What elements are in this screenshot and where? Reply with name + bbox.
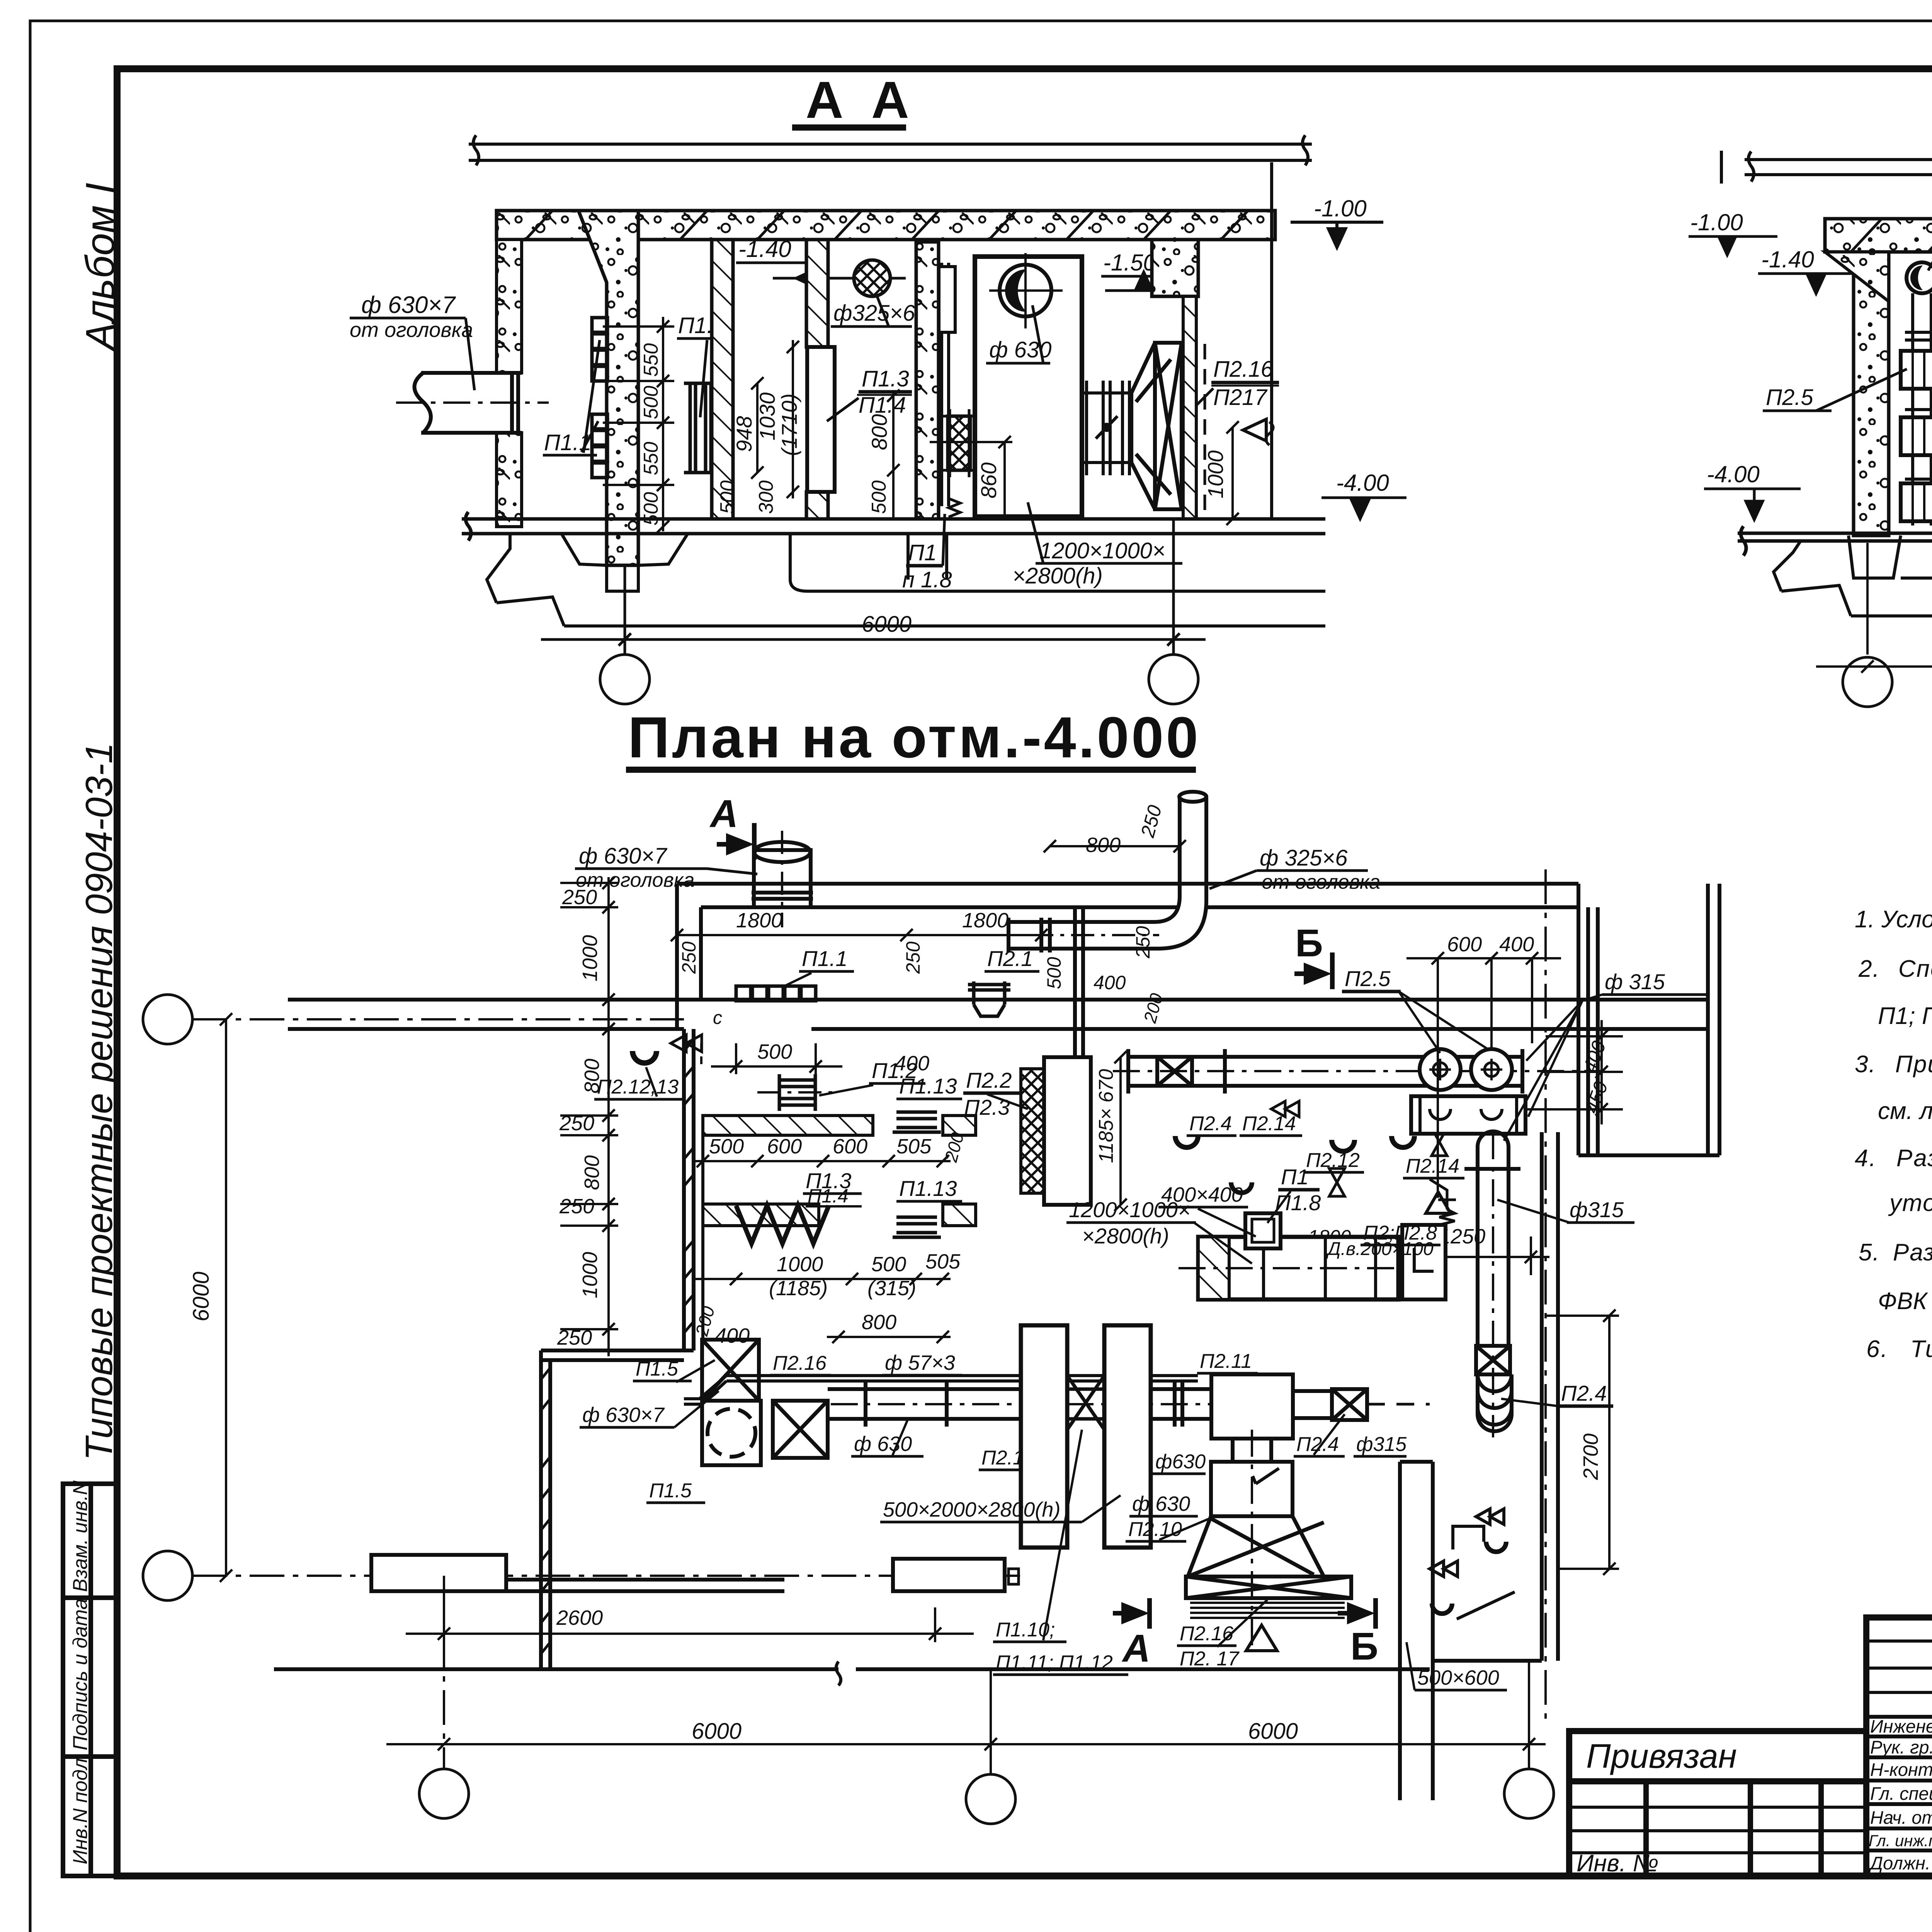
svg-text:ф315: ф315 [1570,1197,1624,1222]
svg-text:250: 250 [1132,926,1154,959]
svg-text:500: 500 [1043,957,1065,989]
svg-text:5. Размеры в скобках относ: 5. Размеры в скобках относятся только к [1859,1239,1932,1266]
svg-text:1000: 1000 [1203,450,1228,498]
hatched partition walls [703,1116,873,1135]
foundation profile [487,534,1325,626]
П1 center unit [1198,1237,1398,1299]
svg-text:×2800(h): ×2800(h) [1082,1224,1169,1248]
svg-text:1800: 1800 [962,909,1009,932]
svg-text:6000: 6000 [189,1272,214,1321]
hatch column 2 with filter П1.3/П1.4 [806,240,828,347]
svg-text:П2.4: П2.4 [1296,1433,1339,1456]
svg-text:А: А [709,792,738,835]
svg-text:Должн.: Должн. [1868,1853,1930,1873]
svg-text:П2.16: П2.16 [1180,1622,1233,1645]
dim chain 550/500/550/500 [603,317,674,533]
П2.1 stub [968,981,1010,1016]
svg-text:П1: П1 [1281,1165,1309,1189]
svg-text:П2.16: П2.16 [773,1352,827,1374]
f325x6 grilled circle [854,260,890,296]
П1.1 louvre stacks [592,318,607,478]
svg-text:с: с [713,1008,722,1028]
fan cone + X box [1131,343,1182,509]
svg-text:6000: 6000 [862,612,912,637]
П2.2/П2.3 unit [1021,1069,1044,1193]
foundation profile [1774,541,1932,616]
svg-text:300: 300 [755,480,777,514]
svg-text:П2.3: П2.3 [964,1095,1010,1119]
svg-text:-4.00: -4.00 [1707,461,1760,487]
hooks and valves under duct [1173,1136,1417,1195]
svg-text:-1.00: -1.00 [1690,209,1743,235]
svg-text:400: 400 [1499,933,1534,956]
svg-text:-1.00: -1.00 [1314,196,1367,221]
948 dim [751,377,764,479]
П1.13 units [893,1112,941,1237]
svg-text:600: 600 [1447,933,1482,956]
grid bubbles [1843,657,1892,707]
svg-text:А: А [806,71,844,129]
svg-text:Инв.N подл.: Инв.N подл. [69,1753,92,1864]
svg-text:П2.14: П2.14 [1406,1155,1459,1177]
svg-text:948: 948 [732,416,756,452]
svg-text:500: 500 [757,1040,792,1063]
svg-text:Гл. инж.пр.: Гл. инж.пр. [1869,1832,1932,1850]
svg-text:2600: 2600 [556,1606,603,1629]
П1.1 grille row on corridor wall [736,986,816,1001]
svg-text:600: 600 [767,1135,802,1158]
svg-text:П1.5: П1.5 [636,1358,679,1380]
top slab lines [1721,151,1932,184]
upper room walls [677,884,1719,1155]
svg-text:(1710): (1710) [777,393,801,456]
svg-text:ф630: ф630 [1155,1451,1206,1473]
floor lines [462,512,1325,541]
left exterior wall (concrete) [497,240,522,373]
svg-text:500: 500 [871,1253,906,1276]
svg-text:Рук. гр.: Рук. гр. [1870,1737,1932,1757]
П2.10 cone下 [1186,1439,1351,1598]
1030 (1710) dim [787,340,799,498]
svg-text:от оголовка: от оголовка [350,318,473,342]
svg-text:П1.3: П1.3 [862,366,909,391]
svg-text:П2.11: П2.11 [1200,1350,1252,1372]
svg-text:1800: 1800 [736,909,782,932]
svg-text:800: 800 [867,414,891,450]
svg-text:400: 400 [1094,972,1126,993]
riser pipes below circles [1905,293,1932,526]
f315 circles top [1906,262,1932,293]
chimney f630 [752,842,813,907]
svg-text:П1: П1 [908,540,937,565]
svg-text:550: 550 [640,442,662,475]
grid bubbles + 6000 dim [541,519,1206,704]
floor [1738,526,1932,556]
svg-text:860: 860 [976,463,1001,498]
svg-text:500: 500 [640,386,662,419]
svg-text:Гл. спец.: Гл. спец. [1870,1783,1932,1804]
svg-text:Нач. отд.: Нач. отд. [1870,1807,1932,1828]
svg-text:П2.10: П2.10 [1128,1518,1182,1541]
svg-text:6000: 6000 [692,1719,742,1744]
left room wall with jog [541,1029,694,1669]
duct to П2.11 junction [1151,1374,1367,1439]
svg-text:1000: 1000 [578,935,602,981]
svg-text:П1.4: П1.4 [808,1185,849,1207]
svg-text:6000: 6000 [1248,1719,1298,1744]
svg-text:А: А [1121,1627,1150,1670]
SECTION A-A [350,71,1406,704]
svg-text:П2. 17: П2. 17 [1180,1648,1240,1670]
svg-text:1200×1000×: 1200×1000× [1069,1197,1190,1222]
WW coil П1.3/П1.4 [736,1206,829,1243]
svg-text:250: 250 [559,1195,594,1218]
svg-text:505: 505 [925,1250,961,1273]
svg-text:500: 500 [709,1135,744,1158]
svg-text:П217: П217 [1213,385,1268,410]
svg-text:Н-контр.: Н-контр. [1870,1759,1932,1780]
long f630 duct [828,1381,1021,1427]
SECTION B-B [1689,69,1932,707]
svg-text:П2.1: П2.1 [987,946,1033,971]
svg-text:2700: 2700 [1579,1434,1602,1480]
svg-text:250: 250 [902,941,924,974]
left-bottom side table [63,1484,117,1876]
svg-text:П2.16: П2.16 [1213,357,1274,382]
svg-text:ф315: ф315 [1356,1433,1407,1456]
corridor wall band [288,1000,1708,1029]
middle concrete wall [916,242,939,519]
svg-text:П1; П2 см. лист ОВ-7.: П1; П2 см. лист ОВ-7. [1878,1003,1932,1029]
NOTES [1855,825,1932,1362]
svg-text:ф 57×3: ф 57×3 [885,1351,955,1374]
svg-text:1185× 670: 1185× 670 [1095,1069,1117,1163]
svg-text:П1.13: П1.13 [899,1176,957,1201]
duct from П1 unit to left: f57x3 line [684,1369,1198,1404]
left (Привязан) table [1569,1731,1866,1876]
svg-text:ФВК: ФВК [1878,1288,1929,1315]
svg-text:П2.12,13: П2.12,13 [597,1076,679,1098]
svg-text:Б: Б [1295,922,1323,965]
П2.5 fans [1420,1049,1461,1090]
hatch column 1 [712,240,733,519]
800 / 500 dims [887,389,900,519]
svg-text:ф 630: ф 630 [854,1432,912,1456]
П1.10-12 fan unit tall rects [1021,1325,1151,1548]
big unit 1200x1000 [975,257,1082,517]
svg-text:250: 250 [562,886,597,909]
svg-text:800: 800 [580,1155,604,1190]
svg-text:ф 630×7: ф 630×7 [582,1403,665,1427]
inner column with chamfer [578,211,638,565]
svg-text:3. Принципиальную схему раб: 3. Принципиальную схему работы вентиляци… [1855,1051,1932,1078]
svg-text:500×2000×2800(h): 500×2000×2800(h) [883,1498,1060,1521]
svg-text:550: 550 [640,343,662,377]
svg-text:уточняется при привязке про: уточняется при привязке проекта. [1888,1190,1932,1216]
svg-text:1000: 1000 [777,1253,823,1276]
svg-text:4. Размер воздуховода в ос: 4. Размер воздуховода в основное помещен… [1855,1145,1932,1172]
svg-text:1030: 1030 [755,392,779,440]
svg-text:Подпись и дата: Подпись и дата [69,1599,92,1750]
ceiling concrete band [497,211,1275,240]
svg-text:ф 315: ф 315 [1605,969,1665,994]
svg-text:А: А [871,71,909,129]
svg-text:Типовые проектные решения 0: Типовые проектные решения 0904-03-1 [78,743,120,1461]
svg-text:-4.00: -4.00 [1336,470,1389,496]
intake pipe f630x7 [415,373,522,433]
PLAN [143,705,1719,1669]
right wall bottom part + 500x600 duct down [1400,907,1719,1800]
svg-text:Б: Б [1350,1625,1378,1668]
svg-text:П1.13: П1.13 [899,1074,957,1098]
svg-text:800: 800 [862,1311,896,1334]
spring under wall [949,498,960,517]
upper slab double lines [469,135,1312,165]
valve assembly right bottom [1430,1509,1515,1619]
svg-text:П2.2: П2.2 [966,1068,1012,1092]
svg-text:Инженер: Инженер [1870,1716,1932,1736]
f325x6 pipe Г-shape [1009,792,1206,952]
svg-text:ф 325×6: ф 325×6 [1260,845,1348,871]
vertical f315 duct w/ cap, damper and bend [1464,1131,1520,1431]
svg-text:-1.50: -1.50 [1103,250,1156,276]
П2.5 boxes [1901,351,1932,521]
svg-text:6. Тип калориферов определя: 6. Тип калориферов определяется при прое… [1866,1336,1932,1362]
svg-text:×2800(h): ×2800(h) [1012,563,1103,588]
f630 crescent circle [1000,265,1051,316]
grid circles left + 6000 vert dim [143,995,192,1044]
svg-text:Привязан: Привязан [1586,1737,1737,1775]
svg-text:2. Спецификацию вентиляционн: 2. Спецификацию вентиляционного оборудов… [1858,956,1932,982]
svg-text:П1.4: П1.4 [859,393,906,418]
П1.2 unit [779,1074,815,1111]
svg-text:ф325×6: ф325×6 [833,301,915,326]
svg-text:600: 600 [833,1135,867,1158]
svg-text:400: 400 [715,1324,750,1347]
svg-text:ф 630×7: ф 630×7 [361,292,456,318]
svg-text:П2.4: П2.4 [1189,1112,1232,1135]
middle signature table [1866,1617,1932,1876]
TITLE BLOCK [1569,1617,1932,1915]
svg-text:П1.5: П1.5 [649,1480,692,1502]
svg-text:Альбом I: Альбом I [78,183,123,352]
svg-text:П1.1: П1.1 [802,946,847,971]
svg-text:Взам. инв.N: Взам. инв.N [69,1480,92,1592]
П1.5 crossed duct boxes [702,1340,828,1465]
svg-text:505: 505 [896,1135,932,1158]
svg-text:п 1.8: п 1.8 [902,567,952,592]
svg-text:П2.5: П2.5 [1766,385,1813,410]
svg-text:П2.14: П2.14 [1242,1112,1296,1135]
svg-text:250: 250 [678,941,700,974]
svg-text:П2.12: П2.12 [1306,1149,1360,1172]
ceiling concrete band [1825,219,1932,252]
svg-text:500: 500 [716,480,739,514]
bottom walls [274,1555,1430,1685]
thin duct in wall + filter stack [939,263,955,506]
svg-text:Д.в.200×100: Д.в.200×100 [1326,1239,1434,1259]
svg-text:ф 630×7: ф 630×7 [579,844,668,869]
svg-text:1. Условные обозначения см.: 1. Условные обозначения см. лист ОВ.-13 … [1855,906,1932,933]
svg-text:1000: 1000 [578,1252,602,1298]
svg-text:П2.5: П2.5 [1345,966,1391,991]
svg-text:500: 500 [868,480,890,514]
left wall w/ corner [1854,252,1889,536]
svg-text:-1.40: -1.40 [1761,247,1814,272]
crosshatch filter [948,416,970,470]
svg-text:ф 630: ф 630 [1132,1492,1190,1515]
svg-text:Инв. №: Инв. № [1577,1850,1658,1877]
duct from П2.2 to fans П2.5 [1128,1049,1522,1094]
duct + flanges to fan [1082,381,1131,475]
svg-text:1200×1000×: 1200×1000× [1039,538,1165,563]
svg-text:см. лист ОВ-13.: см. лист ОВ-13. [1878,1098,1932,1124]
right boundary + arrow symbol [1270,162,1273,519]
svg-text:План на отм.-4.000: План на отм.-4.000 [628,705,1201,770]
right wall: concrete block + hatch strip [1152,240,1198,296]
svg-text:П2.4: П2.4 [1561,1381,1607,1405]
svg-text:-1.40: -1.40 [738,236,791,262]
